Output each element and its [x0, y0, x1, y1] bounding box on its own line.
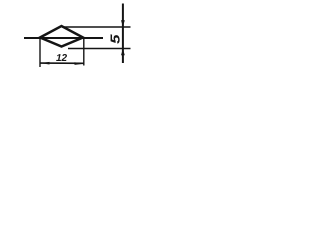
arrowhead left (12)	[40, 62, 49, 65]
svg-text:5: 5	[108, 34, 123, 44]
dimension line 5 (vertical)	[122, 4, 124, 64]
svg-text:12: 12	[56, 53, 68, 64]
extension line left (for 12)	[39, 38, 41, 67]
arrowhead right (12)	[75, 62, 84, 65]
extension line bottom (for 5)	[68, 48, 131, 50]
lead line (horizontal wire through symbol)	[24, 37, 103, 39]
extension line top (for 5)	[62, 26, 131, 28]
arrowhead down (5, at top extension line)	[121, 20, 125, 27]
extension line right (for 12)	[83, 38, 85, 66]
diamond symbol (rhombus)	[40, 26, 83, 47]
dimension line 12	[41, 62, 84, 64]
arrowhead up (5, at bottom extension line)	[121, 49, 125, 56]
